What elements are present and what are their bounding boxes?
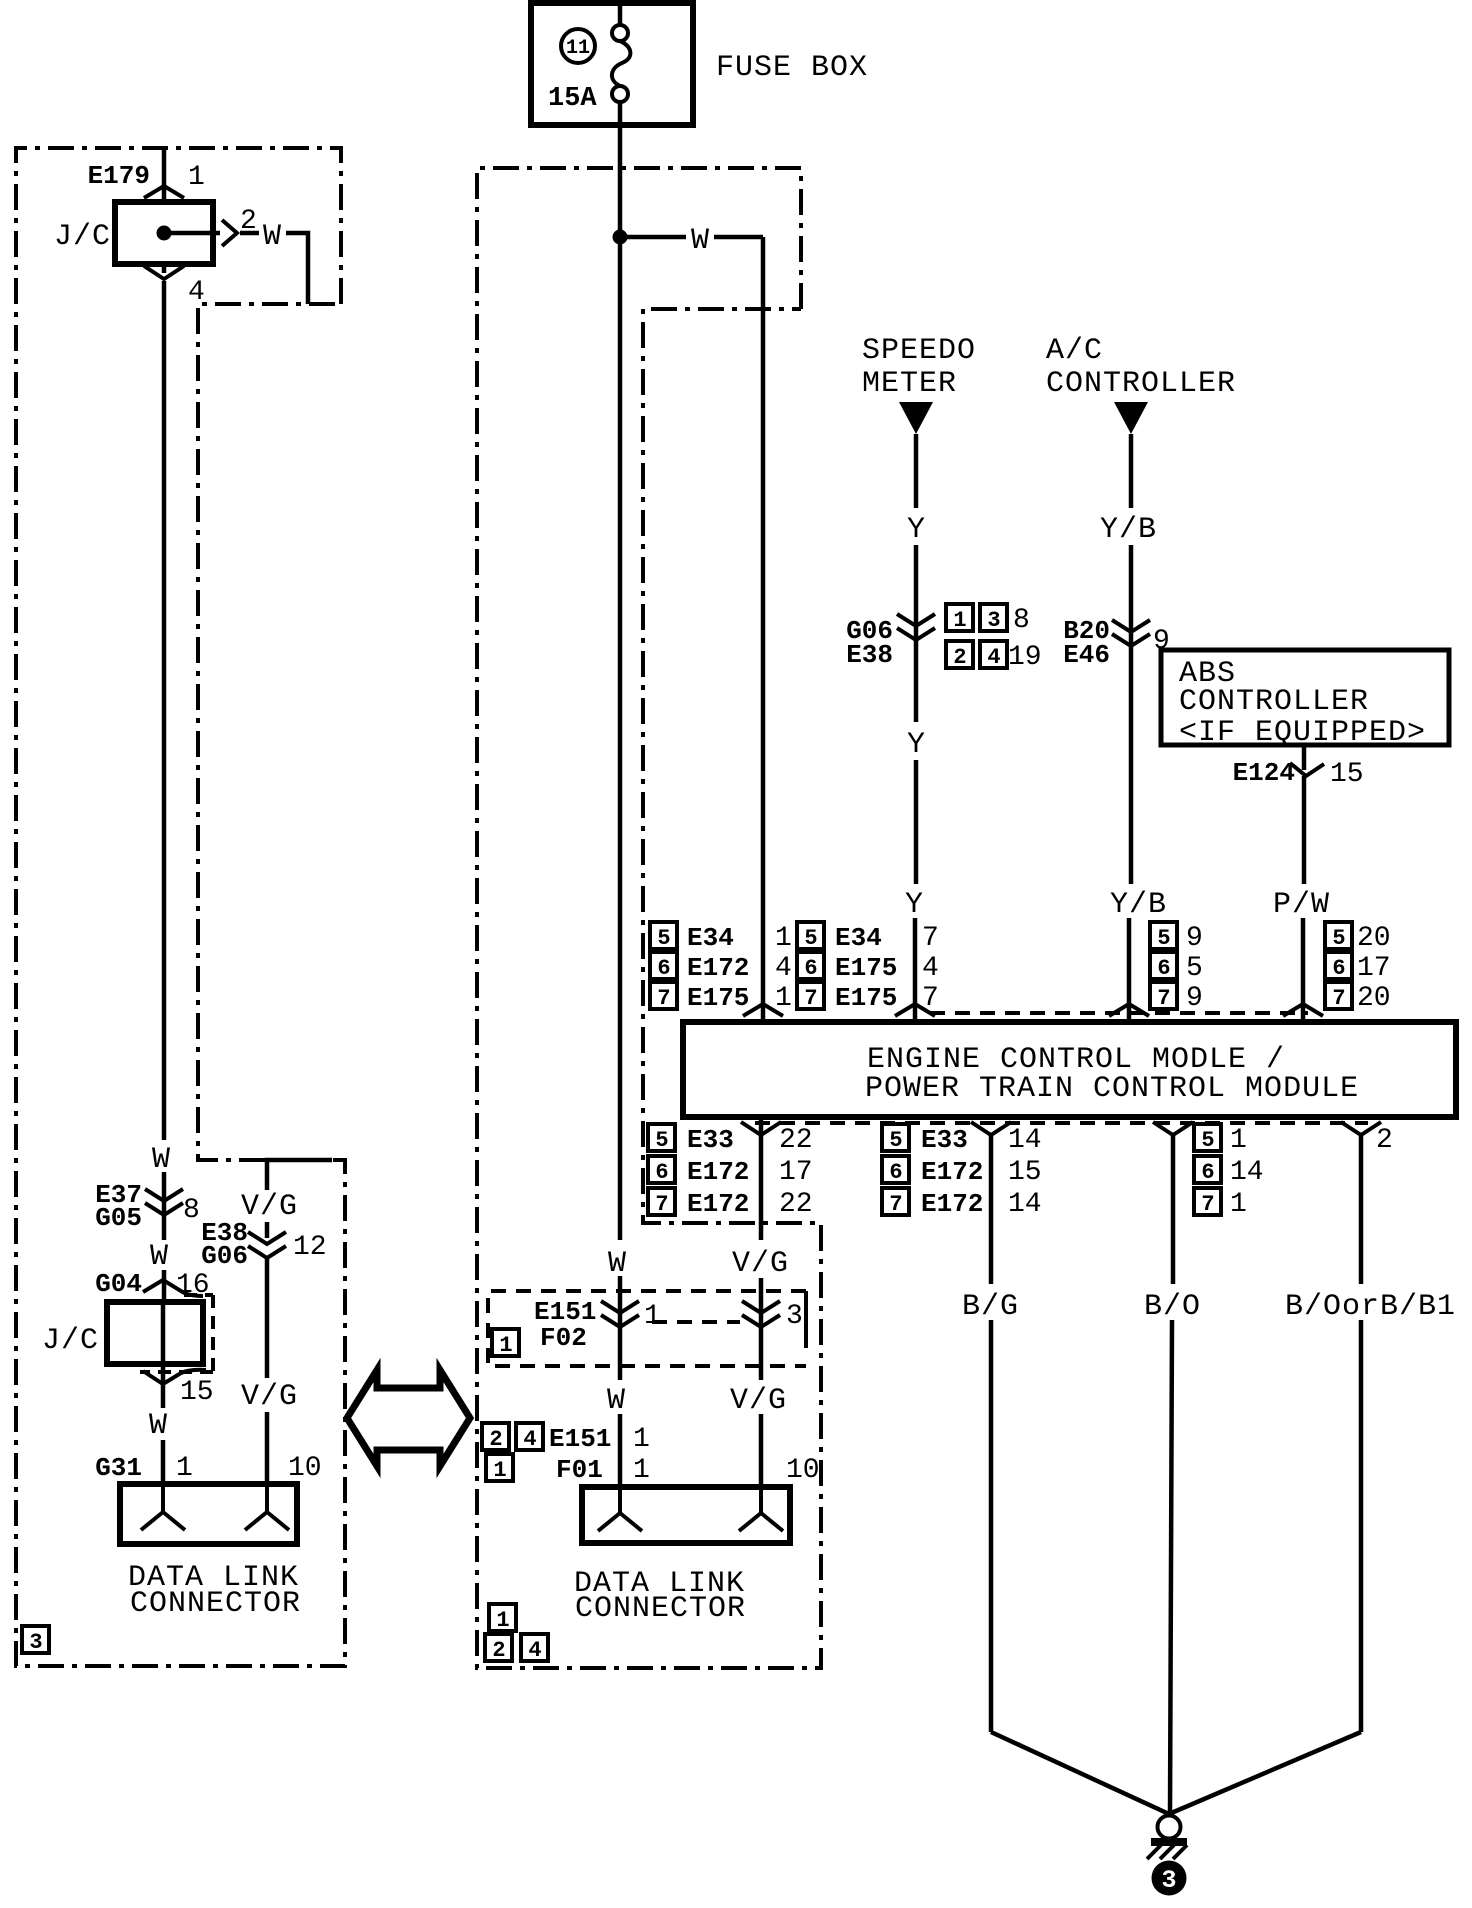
svg-text:14: 14: [1008, 1125, 1042, 1156]
svg-text:6: 6: [1201, 1160, 1214, 1185]
svg-text:5: 5: [657, 926, 670, 951]
fuse terminal circle bottom: [612, 86, 628, 102]
wire down: [265, 1258, 270, 1378]
svg-text:J/C: J/C: [42, 1324, 99, 1358]
svg-text:7: 7: [655, 1192, 668, 1217]
svg-text:E172: E172: [687, 1157, 749, 1187]
left dashed compartment border: [16, 148, 345, 1666]
pin table above ECM group D: [1325, 922, 1391, 1014]
connector chevron pin 4: [144, 266, 184, 279]
svg-text:FUSE BOX: FUSE BOX: [716, 51, 868, 85]
wire down: [989, 1320, 994, 1732]
svg-text:5: 5: [1157, 926, 1170, 951]
ECM / PCM box: [683, 1022, 1456, 1117]
SPEEDO METER feed: [846, 334, 1041, 1022]
middle dashed compartment border: [477, 168, 821, 1668]
pin table below ECM group A: [648, 1124, 813, 1220]
wire B/O or B/B1 from ECM: [1169, 1135, 1456, 1814]
wire P/W down: [1302, 776, 1307, 884]
wire diagonal to ground: [991, 1732, 1169, 1814]
svg-text:E46: E46: [1063, 640, 1110, 670]
inter-section double arrow: [347, 1370, 470, 1466]
ECM bottom edge dashed connector line: [755, 1121, 1368, 1125]
svg-text:5: 5: [889, 1128, 902, 1153]
pin fork 10: [739, 1487, 783, 1531]
note box 1: [492, 1329, 519, 1356]
svg-text:3: 3: [29, 1630, 42, 1655]
svg-text:E33: E33: [921, 1125, 968, 1155]
pin table below ECM group C: [1194, 1124, 1264, 1220]
svg-text:Y: Y: [907, 513, 926, 547]
svg-text:E175: E175: [835, 953, 897, 983]
svg-text:A/C: A/C: [1046, 334, 1103, 368]
svg-text:CONTROLLER: CONTROLLER: [1046, 367, 1236, 401]
J/C box: [115, 202, 213, 264]
svg-text:E124: E124: [1233, 758, 1295, 788]
pin table above ECM group A: [650, 922, 792, 1014]
svg-text:B/G: B/G: [962, 1290, 1019, 1324]
svg-text:5: 5: [1332, 926, 1345, 951]
svg-text:G06: G06: [201, 1241, 248, 1271]
svg-text:CONNECTOR: CONNECTOR: [575, 1592, 746, 1626]
svg-text:17: 17: [1357, 953, 1391, 984]
svg-text:F01: F01: [556, 1455, 603, 1485]
svg-text:5: 5: [804, 926, 817, 951]
svg-text:E172: E172: [921, 1189, 983, 1219]
svg-text:15: 15: [1008, 1157, 1042, 1188]
svg-text:12: 12: [293, 1232, 327, 1263]
svg-text:19: 19: [1008, 642, 1042, 673]
svg-text:W: W: [152, 1143, 171, 1177]
svg-text:1: 1: [499, 1333, 512, 1358]
wire B/O from ECM: [1144, 1135, 1201, 1814]
svg-text:Y/B: Y/B: [1110, 888, 1167, 922]
svg-text:W: W: [150, 1240, 169, 1274]
svg-text:Y: Y: [907, 728, 926, 762]
svg-text:3: 3: [786, 1301, 803, 1332]
svg-text:Y/B: Y/B: [1100, 513, 1157, 547]
wire B/G from ECM: [962, 1135, 1169, 1814]
fuse number circle 11: [561, 29, 595, 63]
wire into ECM: [1127, 918, 1132, 1022]
svg-text:1: 1: [775, 923, 792, 954]
ECM pin chevron (Y/B pin): [1109, 1004, 1149, 1016]
svg-text:4: 4: [922, 953, 939, 984]
svg-text:V/G: V/G: [241, 1190, 298, 1224]
fuse box F11: [531, 0, 693, 125]
svg-text:5: 5: [1201, 1128, 1214, 1153]
svg-text:E172: E172: [687, 1189, 749, 1219]
svg-text:J/C: J/C: [54, 220, 111, 254]
connector chevron G04 pin 16: [143, 1280, 203, 1296]
svg-text:5: 5: [1186, 953, 1203, 984]
wire: [759, 1278, 764, 1380]
wire pin 4 down: [162, 264, 167, 273]
wire through J/C: [161, 1302, 166, 1364]
svg-text:6: 6: [1332, 956, 1345, 981]
svg-text:F02: F02: [540, 1323, 587, 1353]
svg-text:POWER TRAIN CONTROL MODULE: POWER TRAIN CONTROL MODULE: [865, 1072, 1359, 1106]
wire: [1129, 545, 1134, 884]
wire W from fuse down (middle main): [618, 102, 623, 1240]
connector chevron pin 15: [143, 1370, 206, 1384]
wire to right corner: [714, 235, 763, 240]
wire from ECM down: [759, 1117, 764, 1240]
svg-text:E151: E151: [549, 1424, 611, 1454]
pin fork 1: [598, 1487, 642, 1531]
connector G06/E38 double chevron: [897, 614, 935, 626]
wire Y down: [914, 434, 919, 508]
svg-text:7: 7: [1332, 986, 1345, 1011]
pin fork 1: [141, 1484, 185, 1530]
svg-text:G31: G31: [95, 1453, 142, 1483]
ECM pin chevron below (B/O or B/B1 pin): [1341, 1122, 1381, 1135]
note box 3: [980, 604, 1007, 631]
connector E38/G06 double chevron: [248, 1232, 286, 1244]
svg-text:1: 1: [775, 983, 792, 1014]
svg-text:W: W: [691, 224, 710, 258]
svg-text:V/G: V/G: [241, 1380, 298, 1414]
connector E124 chevron: [1290, 763, 1324, 776]
svg-text:11: 11: [566, 37, 590, 60]
svg-text:4: 4: [775, 953, 792, 984]
svg-text:7: 7: [657, 986, 670, 1011]
note box 4: [980, 641, 1007, 668]
note box 1: [489, 1604, 516, 1631]
wire to data link connector: [161, 1440, 166, 1486]
ground bar: [1151, 1838, 1187, 1846]
wire branch right from junction: [620, 235, 686, 240]
svg-text:W: W: [149, 1409, 168, 1443]
svg-text:15: 15: [1330, 759, 1364, 790]
right edge: [804, 1291, 808, 1348]
svg-text:8: 8: [1013, 605, 1030, 636]
svg-text:2: 2: [489, 1427, 502, 1452]
connector E37/G05 double chevron: [145, 1189, 183, 1201]
wire: [914, 760, 919, 884]
svg-text:G05: G05: [95, 1203, 142, 1233]
svg-text:6: 6: [657, 956, 670, 981]
wire down: [1359, 1320, 1364, 1732]
svg-text:20: 20: [1357, 983, 1391, 1014]
svg-text:15A: 15A: [548, 84, 597, 114]
middle column lower run (W wire): [601, 1247, 661, 1487]
svg-text:W: W: [608, 1247, 627, 1281]
svg-text:SPEEDO: SPEEDO: [862, 334, 976, 368]
svg-text:1: 1: [644, 1301, 661, 1332]
note box 4: [521, 1634, 548, 1661]
svg-text:20: 20: [1357, 923, 1391, 954]
ground hatch strokes: [1147, 1845, 1161, 1859]
svg-text:W: W: [263, 220, 282, 254]
svg-text:W: W: [607, 1384, 626, 1418]
wire into ECM: [1301, 918, 1306, 1022]
svg-text:1: 1: [188, 162, 205, 193]
svg-text:7: 7: [922, 923, 939, 954]
svg-text:7: 7: [1201, 1192, 1214, 1217]
wire elbow from border: [267, 1160, 332, 1190]
ECM pin chevron below (B/O pin): [1153, 1122, 1193, 1135]
svg-text:3: 3: [987, 608, 1000, 633]
ABS controller: [1161, 650, 1449, 1022]
pin fork 10: [245, 1484, 289, 1530]
svg-text:1: 1: [493, 1458, 506, 1483]
ECM top edge dashed connector line: [930, 1011, 1308, 1015]
svg-text:E172: E172: [921, 1157, 983, 1187]
wire down to ECM pin: [761, 237, 766, 1022]
svg-text:1: 1: [496, 1608, 509, 1633]
wire: [162, 1270, 167, 1302]
svg-text:6: 6: [889, 1160, 902, 1185]
data link connector (middle): [485, 1487, 790, 1663]
wire: [162, 1172, 167, 1240]
svg-text:V/G: V/G: [732, 1247, 789, 1281]
note box 2: [946, 641, 973, 668]
svg-text:METER: METER: [862, 367, 957, 401]
wire into J/C: [162, 148, 167, 202]
ground id circle 3: [1152, 1861, 1187, 1896]
svg-text:2: 2: [492, 1638, 505, 1663]
note box 3: [22, 1626, 49, 1653]
svg-text:7: 7: [922, 983, 939, 1014]
connector E151 double chevron pin 3: [742, 1301, 780, 1313]
svg-text:8: 8: [183, 1195, 200, 1226]
svg-text:B/O: B/O: [1144, 1290, 1201, 1324]
inner dashed link: [652, 1320, 740, 1324]
ECM pin chevron below (B/G pin): [971, 1122, 1011, 1135]
svg-text:4: 4: [188, 277, 205, 308]
svg-text:1: 1: [633, 1455, 650, 1486]
junction dot inside J/C: [157, 226, 172, 241]
left V/G branch: [201, 1160, 332, 1486]
J/C box dashed shadow: [140, 1295, 213, 1372]
junction dot: [613, 230, 628, 245]
svg-text:7: 7: [1157, 986, 1170, 1011]
wire down to ground: [1170, 1320, 1172, 1814]
svg-text:E38: E38: [846, 640, 893, 670]
pin table above ECM group B: [797, 922, 939, 1014]
wire to data link connector: [759, 1414, 764, 1487]
wire from ABS down: [1302, 745, 1307, 770]
note box 2: [482, 1423, 509, 1450]
svg-text:Y: Y: [905, 888, 924, 922]
wire pin 15 down: [161, 1364, 166, 1408]
middle column V/G run: [730, 1117, 803, 1487]
connector E151/F01 labels: [482, 1423, 820, 1486]
svg-text:7: 7: [889, 1192, 902, 1217]
svg-text:5: 5: [655, 1128, 668, 1153]
wire pin 2 to right: [164, 231, 220, 236]
ECM pin chevron (P/W pin): [1283, 1004, 1323, 1016]
note box 1: [946, 604, 973, 631]
svg-text:E179: E179: [88, 161, 150, 191]
svg-text:14: 14: [1230, 1157, 1264, 1188]
svg-text:3: 3: [1161, 1866, 1176, 1895]
svg-text:E172: E172: [687, 953, 749, 983]
svg-text:1: 1: [1230, 1189, 1247, 1220]
note box 2: [485, 1634, 512, 1661]
svg-text:B/OorB/B1: B/OorB/B1: [1285, 1290, 1456, 1324]
fuse element wire top: [618, 0, 623, 25]
pin table above ECM group C: [1150, 922, 1203, 1014]
svg-text:7: 7: [804, 986, 817, 1011]
left column lower run: [42, 1143, 214, 1486]
arrow head into speedometer: [899, 402, 933, 434]
wire W down long: [162, 281, 167, 1140]
connector B20/E46 double chevron: [1112, 620, 1150, 632]
svg-text:P/W: P/W: [1273, 888, 1330, 922]
connector chevron pin 2: [222, 220, 237, 246]
svg-text:E34: E34: [687, 923, 734, 953]
note box 1: [486, 1454, 513, 1481]
ground eyelet circle: [1158, 1816, 1181, 1839]
ECM pin chevron below (V/G pin): [741, 1122, 781, 1135]
svg-text:2: 2: [953, 645, 966, 670]
svg-text:15: 15: [180, 1377, 214, 1408]
svg-text:CONTROLLER: CONTROLLER: [1179, 685, 1369, 719]
svg-text:<IF EQUIPPED>: <IF EQUIPPED>: [1179, 716, 1426, 750]
wire: [618, 1276, 623, 1380]
svg-text:1: 1: [1230, 1125, 1247, 1156]
svg-text:9: 9: [1186, 923, 1203, 954]
connector E151 double chevron pin 1: [601, 1301, 639, 1313]
wire diagonal to ground: [1169, 1732, 1361, 1814]
svg-text:4: 4: [528, 1638, 541, 1663]
connector chevron pin 1: [144, 186, 184, 198]
svg-text:9: 9: [1186, 983, 1203, 1014]
svg-text:22: 22: [779, 1125, 813, 1156]
wire to data link connector: [618, 1414, 623, 1487]
ground G3: [1147, 1816, 1187, 1896]
wire: [914, 545, 919, 722]
svg-text:6: 6: [1157, 956, 1170, 981]
svg-text:CONNECTOR: CONNECTOR: [130, 1587, 301, 1621]
svg-text:E175: E175: [835, 983, 897, 1013]
J/C box: [107, 1302, 203, 1364]
wire: [265, 1222, 270, 1238]
svg-text:E34: E34: [835, 923, 882, 953]
svg-text:14: 14: [1008, 1189, 1042, 1220]
svg-text:22: 22: [779, 1189, 813, 1220]
svg-text:1: 1: [176, 1453, 193, 1484]
pin table below ECM group B: [882, 1124, 1042, 1220]
svg-text:1: 1: [633, 1424, 650, 1455]
svg-text:10: 10: [786, 1455, 820, 1486]
svg-text:1: 1: [953, 608, 966, 633]
A/C CONTROLLER feed: [1046, 334, 1236, 1022]
wire corner down: [286, 233, 308, 304]
wire to data link connector: [265, 1412, 270, 1486]
data link connector (left): [22, 1484, 301, 1655]
junction connector E179: [54, 148, 308, 1140]
svg-text:6: 6: [655, 1160, 668, 1185]
ECM pin chevron (Y pin): [895, 1004, 935, 1016]
svg-text:E33: E33: [687, 1125, 734, 1155]
svg-text:6: 6: [804, 956, 817, 981]
svg-text:G04: G04: [95, 1269, 142, 1299]
svg-text:E175: E175: [687, 983, 749, 1013]
fuse S element: [612, 41, 630, 86]
note box 4: [516, 1423, 543, 1450]
svg-text:17: 17: [779, 1157, 813, 1188]
wire Y/B down: [1129, 434, 1134, 508]
wire into ECM: [913, 918, 918, 1022]
ECM pin chevron (W branch pin): [743, 1004, 783, 1016]
svg-text:2: 2: [1376, 1125, 1393, 1156]
svg-text:4: 4: [523, 1427, 536, 1452]
arrow head into A/C controller: [1114, 402, 1148, 434]
wire W to right: [240, 231, 259, 236]
connector E151/F02 dashed box: [488, 1291, 806, 1366]
svg-text:4: 4: [987, 645, 1000, 670]
svg-text:10: 10: [288, 1453, 322, 1484]
fuse terminal circle top: [612, 25, 628, 41]
svg-text:V/G: V/G: [730, 1384, 787, 1418]
